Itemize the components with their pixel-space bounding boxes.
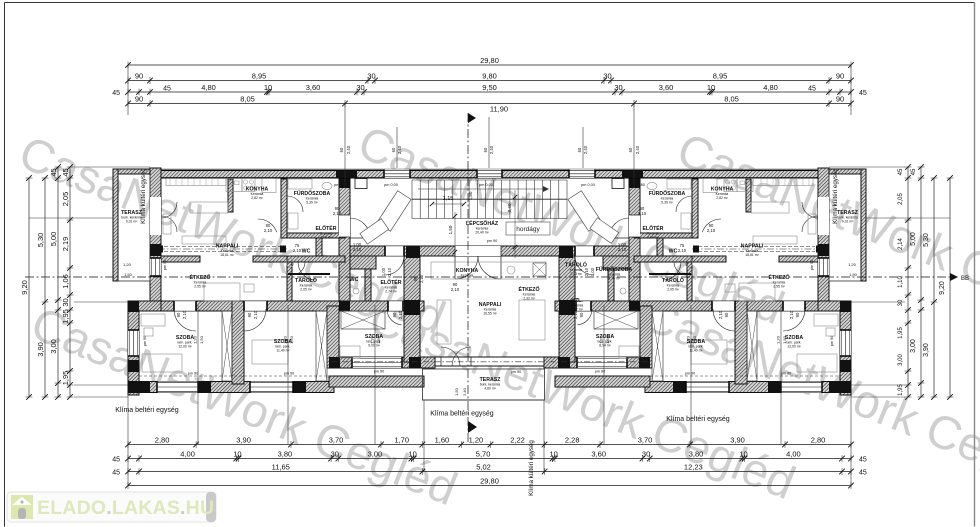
top dimension chains bbox=[128, 64, 851, 66]
svg-text:45: 45 bbox=[112, 470, 120, 477]
svg-text:pm 90: pm 90 bbox=[830, 336, 834, 347]
svg-text:3,70: 3,70 bbox=[638, 436, 653, 445]
svg-text:30: 30 bbox=[61, 298, 70, 306]
svg-text:WC: WC bbox=[302, 249, 311, 255]
svg-text:9,31 m²: 9,31 m² bbox=[842, 220, 854, 224]
svg-text:11,65: 11,65 bbox=[272, 463, 290, 472]
svg-text:1,00: 1,00 bbox=[590, 267, 595, 276]
svg-text:2,10: 2,10 bbox=[707, 228, 716, 233]
svg-text:3,00: 3,00 bbox=[368, 450, 383, 459]
svg-text:2,10: 2,10 bbox=[387, 267, 392, 276]
svg-text:pm 0,00: pm 0,00 bbox=[479, 183, 493, 187]
terrace right bbox=[829, 169, 866, 281]
svg-text:2,32 m²: 2,32 m² bbox=[523, 297, 535, 301]
svg-text:2,05: 2,05 bbox=[898, 193, 904, 205]
svg-text:9,80: 9,80 bbox=[482, 72, 497, 81]
svg-text:2,10: 2,10 bbox=[678, 248, 687, 253]
terrace center bottom bbox=[423, 369, 545, 400]
svg-text:1,95: 1,95 bbox=[61, 309, 70, 324]
svg-text:45: 45 bbox=[859, 90, 867, 97]
svg-text:2,10: 2,10 bbox=[718, 310, 723, 319]
svg-text:45: 45 bbox=[898, 168, 904, 175]
svg-text:90: 90 bbox=[135, 95, 143, 104]
svg-text:1,95: 1,95 bbox=[898, 327, 904, 339]
svg-text:2,80: 2,80 bbox=[155, 436, 170, 445]
svg-text:90: 90 bbox=[795, 312, 800, 317]
svg-text:5,00: 5,00 bbox=[49, 232, 58, 247]
svg-text:3,60: 3,60 bbox=[591, 450, 606, 459]
svg-text:Klíma beltéri egység: Klíma beltéri egység bbox=[115, 407, 179, 414]
svg-text:pm 90: pm 90 bbox=[781, 372, 792, 376]
svg-text:2,05 m²: 2,05 m² bbox=[667, 288, 679, 292]
svg-text:30: 30 bbox=[642, 450, 650, 459]
svg-text:2,10: 2,10 bbox=[789, 310, 794, 319]
svg-text:2,22: 2,22 bbox=[510, 436, 525, 445]
svg-text:8,05: 8,05 bbox=[724, 95, 739, 104]
svg-text:2,10: 2,10 bbox=[182, 310, 187, 319]
svg-text:9,20: 9,20 bbox=[20, 280, 29, 295]
svg-text:2,10: 2,10 bbox=[333, 211, 342, 216]
svg-text:pm 90: pm 90 bbox=[188, 372, 199, 376]
svg-text:2,55 m²: 2,55 m² bbox=[194, 285, 206, 289]
door openings bbox=[174, 301, 196, 311]
svg-text:45: 45 bbox=[163, 85, 171, 92]
svg-text:4,66 m²: 4,66 m² bbox=[320, 236, 332, 240]
svg-text:BB: BB bbox=[961, 276, 969, 282]
svg-text:2,14: 2,14 bbox=[898, 238, 904, 250]
right dimension chains bbox=[949, 178, 951, 397]
svg-text:60: 60 bbox=[391, 147, 396, 152]
svg-text:45: 45 bbox=[859, 470, 867, 477]
svg-text:1,15: 1,15 bbox=[443, 196, 454, 202]
svg-text:3,80: 3,80 bbox=[689, 450, 704, 459]
svg-text:10: 10 bbox=[739, 450, 747, 459]
structural piers bbox=[150, 244, 161, 256]
svg-text:3,60: 3,60 bbox=[306, 83, 321, 92]
wing wc washbasin bbox=[353, 288, 359, 294]
furniture bbox=[166, 179, 226, 186]
svg-text:10: 10 bbox=[408, 450, 416, 459]
svg-text:9,00 m²: 9,00 m² bbox=[368, 344, 380, 348]
svg-text:60: 60 bbox=[483, 147, 488, 152]
svg-text:2,80: 2,80 bbox=[811, 436, 826, 445]
pram storage tilted rects in stair hall bbox=[360, 191, 619, 244]
svg-text:1,50: 1,50 bbox=[849, 272, 858, 277]
svg-text:Klíma kültéri egység: Klíma kültéri egység bbox=[832, 168, 839, 224]
svg-text:4,00: 4,00 bbox=[180, 450, 195, 459]
svg-text:1,20: 1,20 bbox=[469, 436, 484, 445]
svg-text:1,06: 1,06 bbox=[61, 274, 70, 289]
svg-text:pm 1,80: pm 1,80 bbox=[334, 183, 348, 187]
svg-text:45: 45 bbox=[808, 85, 816, 92]
svg-text:45: 45 bbox=[49, 168, 58, 176]
svg-text:5,30: 5,30 bbox=[923, 233, 930, 247]
svg-text:90: 90 bbox=[579, 312, 584, 317]
svg-text:2,82 m²: 2,82 m² bbox=[251, 196, 263, 200]
svg-text:2,40: 2,40 bbox=[397, 145, 402, 154]
svg-text:pm 1,80: pm 1,80 bbox=[631, 183, 645, 187]
svg-text:Klíma kültéri egység: Klíma kültéri egység bbox=[528, 440, 535, 496]
svg-text:8,95: 8,95 bbox=[252, 72, 267, 81]
svg-text:4,60 m²: 4,60 m² bbox=[484, 387, 496, 391]
svg-text:2,10: 2,10 bbox=[618, 247, 627, 252]
svg-text:pm 90: pm 90 bbox=[810, 260, 814, 271]
svg-text:45: 45 bbox=[61, 168, 70, 176]
svg-text:3,00: 3,00 bbox=[898, 354, 904, 366]
svg-text:5,30: 5,30 bbox=[36, 233, 45, 248]
svg-text:3,90: 3,90 bbox=[730, 436, 745, 445]
bottom dimension chains bbox=[128, 444, 851, 446]
svg-text:90: 90 bbox=[247, 312, 252, 317]
svg-text:8,95: 8,95 bbox=[713, 72, 728, 81]
eladolakas logo bbox=[7, 492, 216, 522]
svg-text:5,39 m²: 5,39 m² bbox=[661, 201, 673, 205]
svg-text:1,80: 1,80 bbox=[468, 191, 473, 200]
svg-text:1,10: 1,10 bbox=[898, 276, 904, 288]
svg-text:5,39 m²: 5,39 m² bbox=[306, 201, 318, 205]
svg-text:3,70: 3,70 bbox=[329, 436, 344, 445]
svg-text:2,19: 2,19 bbox=[61, 237, 70, 252]
svg-text:3,76 m²: 3,76 m² bbox=[608, 277, 620, 281]
svg-text:hordágy: hordágy bbox=[516, 226, 540, 233]
svg-text:2,10: 2,10 bbox=[353, 247, 362, 252]
svg-text:5,02: 5,02 bbox=[476, 463, 491, 472]
svg-text:3,80: 3,80 bbox=[278, 450, 293, 459]
svg-text:9,50: 9,50 bbox=[482, 83, 497, 92]
svg-text:90: 90 bbox=[135, 72, 143, 81]
svg-text:pm 90: pm 90 bbox=[143, 336, 147, 347]
svg-text:2,05: 2,05 bbox=[61, 192, 70, 207]
svg-text:30: 30 bbox=[356, 83, 364, 92]
svg-text:1,60: 1,60 bbox=[435, 436, 450, 445]
svg-text:29,80: 29,80 bbox=[480, 56, 499, 65]
dashed beam band nappali bbox=[164, 246, 281, 248]
svg-text:pm 0,00: pm 0,00 bbox=[581, 183, 595, 187]
svg-text:20,40 m²: 20,40 m² bbox=[475, 231, 489, 235]
page border frame bbox=[5, 2, 975, 4]
watermark texts bbox=[12, 115, 980, 515]
svg-text:10: 10 bbox=[264, 83, 272, 92]
svg-text:2,10: 2,10 bbox=[293, 248, 302, 253]
staircase bbox=[411, 180, 413, 219]
svg-text:12,00 m²: 12,00 m² bbox=[178, 345, 192, 349]
svg-text:3,40: 3,40 bbox=[507, 203, 512, 212]
svg-text:60: 60 bbox=[577, 147, 582, 152]
svg-text:9,31 m²: 9,31 m² bbox=[126, 220, 138, 224]
svg-text:5,00: 5,00 bbox=[910, 232, 917, 246]
svg-text:60: 60 bbox=[628, 147, 633, 152]
svg-text:9,20: 9,20 bbox=[939, 281, 946, 295]
svg-text:ELADO.LAKAS.HU: ELADO.LAKAS.HU bbox=[37, 497, 214, 519]
svg-text:2,10: 2,10 bbox=[419, 274, 424, 283]
BB axis dash-dot bbox=[25, 276, 950, 278]
svg-text:90: 90 bbox=[413, 276, 418, 281]
svg-text:8,05: 8,05 bbox=[240, 95, 255, 104]
svg-text:90: 90 bbox=[176, 312, 181, 317]
svg-text:1,95: 1,95 bbox=[61, 371, 70, 386]
svg-text:2,10: 2,10 bbox=[253, 310, 258, 319]
svg-text:2,40: 2,40 bbox=[346, 145, 351, 154]
svg-text:1,50: 1,50 bbox=[454, 387, 459, 396]
svg-text:pm 90: pm 90 bbox=[284, 372, 295, 376]
svg-text:10: 10 bbox=[550, 450, 558, 459]
svg-text:45: 45 bbox=[112, 90, 120, 97]
svg-text:Klíma beltéri egység: Klíma beltéri egység bbox=[666, 416, 730, 423]
svg-text:pm 90: pm 90 bbox=[374, 370, 385, 374]
svg-text:16,55 m²: 16,55 m² bbox=[483, 312, 497, 316]
vertical entrance axis bbox=[467, 113, 469, 443]
svg-text:5,70: 5,70 bbox=[476, 450, 491, 459]
svg-text:4,80: 4,80 bbox=[201, 83, 216, 92]
svg-text:2,74 m²: 2,74 m² bbox=[385, 290, 397, 294]
svg-text:1,70: 1,70 bbox=[394, 436, 409, 445]
svg-text:WC: WC bbox=[669, 249, 678, 255]
svg-text:2,10: 2,10 bbox=[451, 287, 460, 292]
svg-text:18,61 m²: 18,61 m² bbox=[220, 253, 234, 257]
svg-text:2,82 m²: 2,82 m² bbox=[716, 196, 728, 200]
svg-text:3,00: 3,00 bbox=[49, 339, 58, 354]
building outer walls bbox=[150, 168, 829, 170]
terrace left bbox=[113, 169, 150, 281]
svg-text:45: 45 bbox=[911, 168, 917, 175]
svg-text:1,95: 1,95 bbox=[898, 384, 904, 396]
svg-text:90: 90 bbox=[836, 95, 844, 104]
svg-text:30: 30 bbox=[331, 450, 339, 459]
svg-text:3,90: 3,90 bbox=[236, 436, 251, 445]
svg-text:4,80: 4,80 bbox=[763, 83, 778, 92]
svg-text:3,90: 3,90 bbox=[36, 342, 45, 357]
svg-text:10: 10 bbox=[707, 83, 715, 92]
windows in side walls bbox=[150, 197, 161, 235]
svg-text:Kerámia: Kerámia bbox=[461, 274, 474, 278]
svg-text:60: 60 bbox=[339, 147, 344, 152]
svg-text:pm 0,00: pm 0,00 bbox=[384, 183, 398, 187]
svg-text:2,10: 2,10 bbox=[398, 310, 403, 319]
svg-text:2,40: 2,40 bbox=[462, 387, 467, 396]
svg-text:30: 30 bbox=[898, 299, 904, 306]
svg-text:12,00 m²: 12,00 m² bbox=[787, 345, 801, 349]
svg-text:2,10: 2,10 bbox=[584, 267, 589, 276]
svg-text:12,23: 12,23 bbox=[684, 463, 703, 472]
svg-text:30: 30 bbox=[603, 72, 611, 81]
svg-text:3,00: 3,00 bbox=[910, 339, 917, 353]
windows in top wall bbox=[384, 170, 410, 179]
svg-text:1,20: 1,20 bbox=[848, 262, 857, 267]
svg-text:4,00: 4,00 bbox=[786, 450, 801, 459]
svg-text:10: 10 bbox=[233, 450, 241, 459]
svg-text:1,50: 1,50 bbox=[124, 272, 133, 277]
svg-text:11,90: 11,90 bbox=[490, 105, 508, 114]
svg-text:2,55 m²: 2,55 m² bbox=[773, 285, 785, 289]
left horizontal extension lines bbox=[29, 217, 113, 219]
svg-text:2,28: 2,28 bbox=[565, 436, 580, 445]
svg-text:1,20: 1,20 bbox=[776, 335, 781, 344]
svg-text:90: 90 bbox=[836, 72, 844, 81]
svg-text:2,05 m²: 2,05 m² bbox=[300, 288, 312, 292]
svg-text:2,40: 2,40 bbox=[489, 145, 494, 154]
svg-text:18,61 m²: 18,61 m² bbox=[745, 253, 759, 257]
svg-text:Klíma beltéri egység: Klíma beltéri egység bbox=[430, 411, 494, 418]
windows in bottom wall bbox=[157, 382, 198, 393]
svg-text:1,50: 1,50 bbox=[199, 335, 204, 344]
svg-text:11,40 m²: 11,40 m² bbox=[689, 349, 703, 353]
left dimension chains bbox=[28, 178, 30, 397]
svg-text:90: 90 bbox=[724, 312, 729, 317]
svg-text:45: 45 bbox=[112, 457, 120, 464]
svg-text:pm 90: pm 90 bbox=[595, 370, 606, 374]
svg-text:WC: WC bbox=[350, 277, 359, 283]
svg-text:90: 90 bbox=[392, 312, 397, 317]
svg-text:2,40: 2,40 bbox=[583, 145, 588, 154]
svg-text:11,40 m²: 11,40 m² bbox=[276, 349, 290, 353]
svg-text:pm 90: pm 90 bbox=[511, 370, 522, 374]
svg-text:1,50: 1,50 bbox=[448, 225, 453, 234]
svg-text:8,94 m²: 8,94 m² bbox=[599, 344, 611, 348]
svg-text:30: 30 bbox=[614, 83, 622, 92]
svg-text:pm 90: pm 90 bbox=[163, 260, 167, 271]
svg-text:2,40: 2,40 bbox=[635, 145, 640, 154]
svg-text:2,10: 2,10 bbox=[264, 228, 273, 233]
svg-text:3,90: 3,90 bbox=[923, 343, 930, 357]
svg-text:1,00: 1,00 bbox=[381, 267, 386, 276]
svg-text:29,80: 29,80 bbox=[480, 477, 499, 486]
svg-text:Klíma kültéri egység: Klíma kültéri egység bbox=[140, 168, 147, 224]
interior partition walls bbox=[228, 179, 233, 212]
svg-text:2,10: 2,10 bbox=[573, 310, 578, 319]
door arcs bbox=[161, 202, 177, 218]
svg-text:4,66 m²: 4,66 m² bbox=[647, 236, 659, 240]
svg-text:3,60: 3,60 bbox=[659, 83, 674, 92]
svg-text:2,03 m²: 2,03 m² bbox=[570, 272, 582, 276]
svg-text:1,20: 1,20 bbox=[123, 262, 132, 267]
svg-text:pm 90: pm 90 bbox=[685, 372, 696, 376]
svg-text:30: 30 bbox=[367, 72, 375, 81]
window axis lines top bbox=[396, 127, 398, 168]
svg-text:pm 90: pm 90 bbox=[487, 239, 498, 243]
svg-text:45: 45 bbox=[859, 457, 867, 464]
extension lines below building bbox=[197, 305, 199, 444]
svg-text:2,10: 2,10 bbox=[638, 211, 647, 216]
